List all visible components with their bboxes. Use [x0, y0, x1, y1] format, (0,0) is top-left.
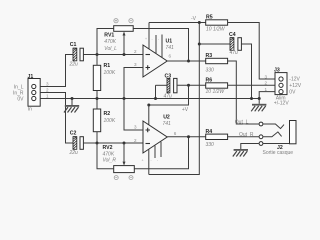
- node junction wiper RV2: [123, 142, 126, 145]
- wire C2 to U2 pin2: [83, 142, 143, 144]
- svg-text:+: +: [145, 37, 147, 41]
- svg-text:2: 2: [134, 49, 137, 54]
- svg-text:-V: -V: [191, 16, 197, 22]
- node 0V rail junction: [258, 97, 261, 100]
- wire U2 V- supply pin: [148, 149, 150, 174]
- svg-text:100K: 100K: [104, 118, 116, 124]
- node junction C1/R1/RV1: [96, 53, 99, 56]
- svg-text:J3: J3: [274, 67, 280, 73]
- svg-text:U2: U2: [163, 115, 170, 121]
- wire C4 to J3 pin2: [241, 44, 251, 99]
- svg-text:Out_R: Out_R: [239, 132, 254, 138]
- wire J1 pin3 to C1 riser: [40, 55, 73, 87]
- svg-text:330: 330: [206, 142, 215, 148]
- svg-text:741: 741: [166, 45, 175, 51]
- svg-text:3: 3: [264, 74, 267, 79]
- svg-text:Vol_R: Vol_R: [103, 158, 117, 164]
- wire U2 V+ supply pin: [148, 105, 150, 125]
- wire U1 output row: [167, 60, 206, 62]
- node U2 V+ junction: [147, 104, 150, 107]
- wire rail to C4: [199, 43, 230, 45]
- wire J3 pin1 0V: [259, 92, 275, 99]
- wire +V branch: [149, 85, 189, 105]
- svg-text:+: +: [142, 159, 144, 163]
- node C3/R6/+V junction: [187, 84, 190, 87]
- svg-text:+V: +V: [182, 107, 189, 113]
- ground symbol right: [251, 99, 266, 112]
- wire U1 V- supply pin: [148, 23, 150, 50]
- svg-text:Out_L: Out_L: [235, 120, 249, 126]
- svg-text:1: 1: [46, 94, 49, 99]
- node C4 rail junction: [198, 43, 201, 46]
- svg-text:22u: 22u: [69, 62, 79, 68]
- svg-text:RV1: RV1: [104, 32, 114, 38]
- svg-text:0V: 0V: [289, 89, 296, 95]
- node rail junctions: [71, 97, 74, 100]
- svg-text:47u: 47u: [230, 50, 239, 56]
- wire -V row: [149, 22, 206, 24]
- svg-text:0V: 0V: [17, 96, 24, 102]
- resistor R2: [93, 99, 116, 144]
- wire R3 to jack Out_L: [228, 61, 259, 124]
- svg-text:470K: 470K: [103, 151, 115, 157]
- svg-text:R6: R6: [206, 77, 213, 83]
- potentiometer RV1: [97, 26, 189, 61]
- svg-text:47u: 47u: [164, 94, 173, 100]
- svg-text:In_L: In_L: [14, 84, 24, 90]
- svg-text:R5: R5: [206, 15, 213, 21]
- node -V rail junction: [198, 21, 201, 24]
- U1 stub pin 5: [161, 35, 163, 58]
- wire J1 pin2 to C2 riser: [40, 93, 73, 144]
- svg-text:C3: C3: [165, 73, 172, 79]
- svg-text:100K: 100K: [104, 70, 116, 76]
- svg-text:R4: R4: [206, 129, 213, 135]
- power symbol circle minus below RV2 right: [129, 176, 133, 180]
- resistor R1: [93, 55, 116, 99]
- svg-text:22u: 22u: [69, 150, 79, 156]
- svg-text:C2: C2: [70, 130, 77, 136]
- svg-text:-12V: -12V: [289, 77, 300, 83]
- resistor R6: [206, 77, 228, 95]
- ground symbol left: [64, 99, 79, 113]
- svg-text:10 1/2W: 10 1/2W: [206, 26, 226, 32]
- wire C3 left leg to rail: [155, 85, 157, 98]
- op-amp U1: [134, 37, 174, 77]
- power symbol circle minus above RV1: [129, 19, 133, 23]
- wire ground rail: [40, 98, 259, 100]
- wire R5 to J3 pin3: [228, 23, 275, 80]
- svg-text:Vol_L: Vol_L: [104, 46, 117, 52]
- wire R4 to jack Out_R: [228, 136, 259, 138]
- U1 stub pin 7: [155, 35, 157, 54]
- svg-text:R1: R1: [104, 63, 111, 69]
- resistor R4: [206, 129, 228, 148]
- potentiometer RV2: [97, 137, 189, 173]
- node junction wiper: [123, 53, 126, 56]
- node U2 output feedback junction: [187, 135, 190, 138]
- svg-text:2: 2: [264, 81, 267, 86]
- node U1 output feedback junction: [187, 60, 190, 63]
- U2 stub pin: [154, 146, 156, 158]
- resistor R3: [206, 53, 228, 74]
- svg-text:C1: C1: [70, 42, 77, 48]
- node C4 drop to rail junction: [250, 97, 253, 100]
- svg-text:C4: C4: [229, 32, 236, 38]
- capacitor C3: [156, 73, 178, 99]
- power symbol circle plus above RV1: [114, 19, 118, 23]
- svg-text:+/-12V: +/-12V: [274, 101, 290, 107]
- svg-text:Sortie casque: Sortie casque: [263, 150, 294, 156]
- svg-text:6: 6: [174, 131, 177, 136]
- svg-text:+12V: +12V: [289, 83, 301, 89]
- capacitor C4: [229, 32, 241, 56]
- svg-text:470K: 470K: [104, 39, 116, 45]
- jack J2: [259, 121, 296, 157]
- svg-text:RV2: RV2: [103, 145, 113, 151]
- svg-text:R3: R3: [206, 53, 213, 59]
- connector J1: [13, 74, 49, 113]
- svg-text:J1: J1: [28, 74, 34, 80]
- wire C1 to U1 pin2: [83, 54, 143, 56]
- svg-text:U1: U1: [166, 39, 173, 45]
- wire R6 to J3 pin2: [228, 84, 275, 86]
- svg-text:2: 2: [46, 88, 49, 93]
- wire C3 right to R6: [177, 84, 206, 86]
- ground symbol jack: [233, 149, 248, 157]
- svg-text:3: 3: [134, 62, 137, 67]
- svg-text:2: 2: [134, 138, 137, 143]
- wire jack sleeve to ground: [241, 144, 259, 150]
- svg-text:In: In: [28, 107, 32, 113]
- capacitor C2: [69, 130, 84, 156]
- connector J3: [264, 67, 301, 106]
- capacitor C1: [69, 42, 84, 68]
- svg-text:R2: R2: [104, 111, 111, 117]
- resistor R5: [206, 15, 228, 33]
- wire -V vertical rail: [149, 23, 200, 175]
- power symbol circle minus below RV2 left: [114, 176, 118, 180]
- svg-text:6: 6: [169, 54, 172, 59]
- wire U2 pin3 to rail: [124, 99, 143, 131]
- wire U2 output row: [167, 136, 206, 138]
- op-amp U2: [134, 115, 177, 163]
- U2 stub pin: [160, 142, 162, 157]
- svg-text:10 1/2W: 10 1/2W: [206, 89, 226, 95]
- svg-text:3: 3: [134, 125, 137, 130]
- svg-text:330: 330: [206, 68, 215, 74]
- node junction C2/R2/RV2: [96, 142, 99, 145]
- svg-text:741: 741: [163, 121, 172, 127]
- wire U1 pin3 to rail: [124, 68, 143, 99]
- svg-text:3: 3: [46, 82, 49, 87]
